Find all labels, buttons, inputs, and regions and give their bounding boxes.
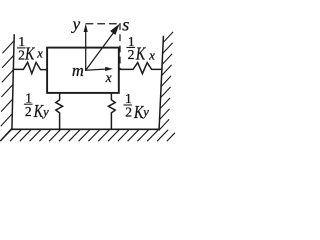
label 1/2 Kx top-left bbox=[17, 34, 43, 64]
x-axis bbox=[86, 69, 107, 70]
spring left vertical bbox=[56, 93, 63, 129]
spring left horizontal bbox=[13, 62, 47, 73]
svg-text:2: 2 bbox=[128, 47, 135, 62]
label 1/2 Kx top-right bbox=[127, 34, 156, 64]
right wall line bbox=[159, 37, 163, 130]
y axis arrowhead bbox=[84, 24, 88, 32]
svg-text:y: y bbox=[41, 105, 49, 119]
svg-text:K: K bbox=[135, 45, 146, 64]
label 1/2 Ky bottom-left bbox=[24, 90, 49, 121]
floor hatching bbox=[1, 130, 175, 141]
arrowheads bbox=[84, 24, 120, 71]
dashed top edge bbox=[86, 23, 120, 25]
svg-text:x: x bbox=[105, 70, 112, 85]
svg-text:m: m bbox=[72, 61, 84, 80]
mass block m bbox=[47, 48, 119, 93]
svg-text:x: x bbox=[148, 47, 155, 62]
svg-text:2: 2 bbox=[25, 104, 32, 119]
left wall hatching bbox=[1, 41, 14, 141]
s arrowhead bbox=[110, 24, 120, 35]
svg-text:y: y bbox=[141, 105, 149, 119]
svg-text:y: y bbox=[71, 15, 81, 34]
floor line bbox=[12, 128, 159, 130]
left wall line bbox=[12, 35, 14, 129]
svg-text:s: s bbox=[122, 15, 129, 35]
svg-text:x: x bbox=[36, 46, 43, 60]
spring right horizontal bbox=[119, 63, 162, 74]
vector s line bbox=[86, 32, 114, 70]
right wall hatching bbox=[159, 32, 173, 130]
svg-text:K: K bbox=[24, 45, 35, 64]
x axis arrowhead bbox=[105, 67, 113, 71]
label 1/2 Ky bottom-right bbox=[124, 91, 150, 122]
spring right vertical bbox=[108, 93, 115, 129]
y-axis bbox=[86, 30, 114, 70]
svg-text:2: 2 bbox=[18, 48, 25, 63]
svg-text:2: 2 bbox=[125, 105, 132, 120]
dashed right edge bbox=[119, 24, 121, 70]
